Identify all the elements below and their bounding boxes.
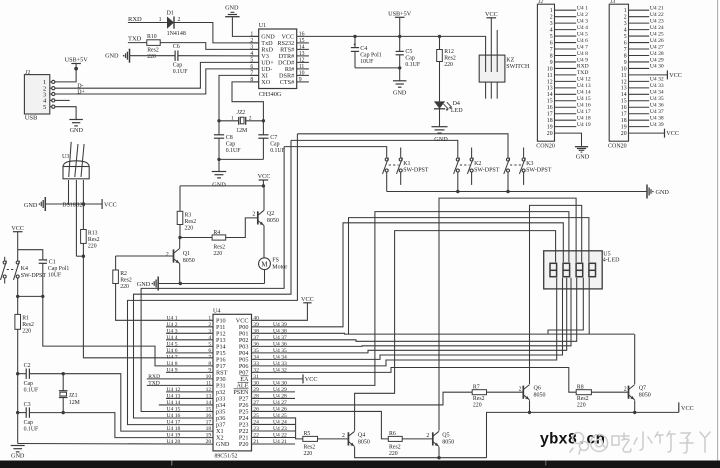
svg-text:14: 14 <box>299 44 305 50</box>
wire P02 row to U5 bottom (band 341.3) <box>252 278 577 342</box>
svg-text:Res2: Res2 <box>444 55 456 61</box>
J1 pin 3 <box>50 93 52 95</box>
svg-text:R3: R3 <box>185 213 192 219</box>
wire P25 row to R6 <box>252 411 389 438</box>
svg-text:16: 16 <box>621 105 627 111</box>
svg-text:2: 2 <box>250 38 253 44</box>
svg-text:14: 14 <box>621 92 627 98</box>
svg-text:U4 15: U4 15 <box>167 407 181 413</box>
transistor Q6 8050 <box>522 386 524 399</box>
capacitor C4 10UF polarized <box>353 35 356 38</box>
svg-text:11: 11 <box>547 73 553 79</box>
svg-text:U4 24: U4 24 <box>650 25 664 31</box>
ground below crystal <box>218 159 220 171</box>
svg-text:6: 6 <box>624 40 627 46</box>
svg-text:220: 220 <box>147 54 156 60</box>
svg-text:U4 12: U4 12 <box>577 77 591 83</box>
svg-text:U4 9: U4 9 <box>167 368 178 374</box>
svg-text:6: 6 <box>550 40 553 46</box>
svg-text:7: 7 <box>208 355 211 361</box>
svg-text:RXD: RXD <box>148 374 160 380</box>
resistor R7 220 <box>472 390 486 395</box>
svg-text:1: 1 <box>250 31 253 37</box>
svg-text:R5: R5 <box>304 431 311 437</box>
bottom taskbar <box>0 461 720 468</box>
svg-text:GND: GND <box>212 182 226 189</box>
svg-text:K1: K1 <box>403 161 410 167</box>
capacitor C6 0.1UF <box>174 51 176 61</box>
wire R7 to Q6 base <box>487 391 524 393</box>
svg-text:VCC: VCC <box>301 296 314 303</box>
node C3 left junction <box>16 411 19 414</box>
svg-text:U4 7: U4 7 <box>167 355 178 361</box>
wire C3 row to U4 X2 <box>63 413 213 438</box>
svg-text:15: 15 <box>206 407 212 413</box>
svg-text:U4 38: U4 38 <box>650 115 664 121</box>
svg-text:U4 17: U4 17 <box>577 109 591 115</box>
wire U4 pin 24 stub <box>252 423 296 425</box>
svg-text:GND: GND <box>11 453 25 460</box>
wire U5 bottom pin to band (x589.2) <box>588 278 590 334</box>
svg-text:10UF: 10UF <box>48 273 62 279</box>
svg-text:C5: C5 <box>405 49 412 55</box>
svg-text:17: 17 <box>206 420 212 426</box>
wire crystal rail <box>219 120 239 122</box>
wire emitter rail up to Q6/Q7 rail <box>487 412 679 457</box>
wire motor to GND rail <box>264 270 266 284</box>
svg-text:U4: U4 <box>213 308 220 314</box>
svg-text:USB: USB <box>25 115 38 122</box>
capacitor C7 0.1UF <box>262 121 264 135</box>
svg-text:VCC: VCC <box>258 173 271 180</box>
svg-text:RXD: RXD <box>577 64 589 70</box>
svg-text:9: 9 <box>624 60 627 66</box>
wire U4 pin 6 stub / net label U4 6 <box>166 352 213 354</box>
svg-text:8050: 8050 <box>358 439 370 445</box>
wire Q2 emitter to motor <box>263 226 265 258</box>
svg-text:0.1UF: 0.1UF <box>24 427 39 433</box>
svg-text:U5: U5 <box>603 251 610 257</box>
node reset rail left <box>16 295 19 298</box>
svg-text:U4 16: U4 16 <box>577 103 591 109</box>
wire USB+5V to J1 pin1 <box>55 64 76 82</box>
svg-text:Res2: Res2 <box>389 444 401 450</box>
resistor R6 220 <box>388 436 402 441</box>
svg-text:SW-DPST: SW-DPST <box>474 168 500 174</box>
svg-text:U4 5: U4 5 <box>577 31 588 37</box>
svg-text:U4 18: U4 18 <box>577 115 591 121</box>
svg-text:K2: K2 <box>474 161 481 167</box>
svg-text:SW-DPST: SW-DPST <box>403 168 429 174</box>
svg-text:220: 220 <box>304 451 313 457</box>
svg-text:J3: J3 <box>610 0 615 5</box>
transistor Q5 8050 <box>432 432 434 445</box>
svg-text:GND: GND <box>70 127 84 134</box>
svg-text:13: 13 <box>621 86 627 92</box>
svg-text:J2: J2 <box>538 0 543 5</box>
wire R6 to Q5 base <box>402 438 433 440</box>
ground below C5 <box>399 68 401 81</box>
wire U1 XI to crystal <box>219 75 259 120</box>
switch K2 SW-DPST <box>456 158 459 161</box>
node reset rail right <box>41 295 44 298</box>
wire J2 pin20 to ground <box>555 133 582 146</box>
svg-text:GND: GND <box>24 202 38 209</box>
wire RXD to D1 anode <box>128 22 167 24</box>
svg-text:C4: C4 <box>360 46 367 52</box>
svg-text:15: 15 <box>547 99 553 105</box>
svg-text:8050: 8050 <box>267 218 279 224</box>
J1 pin 5 <box>50 106 52 108</box>
svg-text:18: 18 <box>621 118 627 124</box>
svg-text:Cap: Cap <box>24 381 33 387</box>
svg-text:GND: GND <box>393 90 407 97</box>
svg-text:K4: K4 <box>21 266 28 272</box>
svg-text:Cap: Cap <box>270 142 279 148</box>
wire C6 to U1 V3 <box>178 55 259 57</box>
svg-text:Res2: Res2 <box>147 48 159 54</box>
svg-text:U4 19: U4 19 <box>577 122 591 128</box>
svg-text:89C51/52: 89C51/52 <box>215 454 238 460</box>
node Q1 collector junction <box>178 236 181 239</box>
node C5 junctions <box>398 35 401 38</box>
power VCC (emitter rail) <box>678 402 680 412</box>
wire P00 row to U5 (riser x343) <box>252 223 564 327</box>
switch KZ (slide switch) <box>479 55 505 82</box>
svg-text:Q4: Q4 <box>358 432 365 438</box>
svg-text:1: 1 <box>159 17 162 23</box>
svg-text:U4 8: U4 8 <box>167 361 178 367</box>
svg-text:C2: C2 <box>24 363 31 369</box>
svg-text:18: 18 <box>547 118 553 124</box>
U1 pin 8 XO <box>250 81 259 83</box>
svg-text:U4 21: U4 21 <box>650 6 664 12</box>
wire C4-C5 ground link <box>355 67 400 69</box>
LED D4 <box>434 101 445 108</box>
wire U4 pin40 VCC <box>252 303 308 321</box>
svg-text:R12: R12 <box>444 49 454 55</box>
wire Q1 collector to R3 node <box>179 238 181 249</box>
wire U5 bottom pin to band row 330 <box>548 278 583 334</box>
J1 pin 4 <box>50 99 52 101</box>
resistor R3 220 <box>179 186 181 211</box>
svg-text:Q5: Q5 <box>442 432 449 438</box>
svg-text:U4 26: U4 26 <box>650 38 664 44</box>
svg-text:U4 4: U4 4 <box>577 25 588 31</box>
svg-text:13: 13 <box>547 86 553 92</box>
resistor R13 220 <box>82 204 84 230</box>
U1 pin 11 RI# <box>297 68 309 70</box>
svg-text:U4 22: U4 22 <box>650 12 664 18</box>
svg-text:10: 10 <box>299 70 305 76</box>
wire R10 to U1 RxD <box>160 43 259 50</box>
wire J3 pin11 to VCC <box>629 74 668 76</box>
U1 pin 14 RTS# <box>297 48 309 50</box>
node VCC rail junction <box>262 184 265 187</box>
U3 pins down <box>68 180 70 204</box>
U1 pin 5 UD+ <box>250 61 259 63</box>
svg-text:K3: K3 <box>526 161 533 167</box>
node JZ1 bottom junction <box>62 411 65 414</box>
svg-text:R7: R7 <box>473 384 480 390</box>
svg-text:USB+5V: USB+5V <box>388 10 412 17</box>
svg-text:19: 19 <box>621 125 627 131</box>
svg-text:5: 5 <box>550 34 553 40</box>
svg-text:10UF: 10UF <box>360 59 374 65</box>
U1 pin 4 V3 <box>250 55 259 57</box>
svg-text:12: 12 <box>621 79 627 85</box>
svg-text:R6: R6 <box>389 431 396 437</box>
svg-text:8050: 8050 <box>534 393 546 399</box>
ground (sideways) right of keys <box>646 185 648 199</box>
svg-text:U4 33: U4 33 <box>650 83 664 89</box>
svg-text:GND: GND <box>137 281 151 288</box>
node Q1 emitter gnd junction <box>179 282 182 285</box>
svg-text:P20: P20 <box>239 441 249 448</box>
svg-text:VCC: VCC <box>669 72 682 79</box>
svg-text:U4 13: U4 13 <box>577 83 591 89</box>
power VCC and rail to R3/Q2 <box>180 185 263 187</box>
svg-text:1: 1 <box>208 316 211 322</box>
svg-text:Res2: Res2 <box>88 237 100 243</box>
wire P03 row to U5 bottom (band 345.8) <box>252 278 572 347</box>
svg-text:R10: R10 <box>147 34 157 40</box>
wire VCC down to K4/C1 <box>17 232 19 261</box>
switch K3 SW-DPST <box>507 158 510 161</box>
node C2 left junction <box>16 372 19 375</box>
svg-text:8: 8 <box>550 53 553 59</box>
transistor Q7 8050 <box>628 386 630 399</box>
svg-text:CON20: CON20 <box>608 144 627 150</box>
wire P05 row to U5 bottom (band 355) <box>252 278 563 360</box>
U1 pin 1 GND <box>250 35 259 37</box>
svg-text:7: 7 <box>550 47 553 53</box>
svg-text:U4 5: U4 5 <box>167 342 178 348</box>
svg-text:220: 220 <box>185 226 194 232</box>
watermark ghost logo <box>570 431 710 454</box>
svg-text:U4 6: U4 6 <box>577 38 588 44</box>
svg-text:U4 12: U4 12 <box>167 387 181 393</box>
svg-text:U1: U1 <box>259 23 266 29</box>
svg-text:Motor: Motor <box>272 265 287 271</box>
wire J1 pin4 stub <box>55 99 70 101</box>
wire GND to U1 pin1 <box>232 17 258 37</box>
wire P04 row to U5 bottom (band 350.3) <box>252 278 567 353</box>
wire J1 pin3 D+ to U1 UD- <box>55 69 259 94</box>
svg-text:VCC: VCC <box>485 11 498 18</box>
wire K3 column down to U4 p37 <box>128 134 298 425</box>
svg-text:15: 15 <box>621 99 627 105</box>
svg-text:U4 1: U4 1 <box>167 316 178 322</box>
svg-text:U4 29: U4 29 <box>650 57 664 63</box>
wire TXD to R10 <box>128 42 147 44</box>
svg-text:JZ1: JZ1 <box>69 393 78 399</box>
svg-text:Cap: Cap <box>173 63 182 69</box>
svg-text:3: 3 <box>250 44 253 50</box>
svg-text:U4 15: U4 15 <box>577 96 591 102</box>
wire U4 pin 14 stub / net label U4 14 <box>159 404 213 406</box>
switch K4 SW-DPST <box>16 261 19 264</box>
ground below J1 <box>69 119 83 121</box>
wire J1 pin5 to ground <box>55 107 76 120</box>
wire ALE row riser to U5 top <box>252 212 569 386</box>
svg-text:220: 220 <box>577 403 586 409</box>
svg-text:4: 4 <box>250 51 253 57</box>
svg-text:U4 16: U4 16 <box>167 413 181 419</box>
IC U1 CH340G <box>259 29 297 89</box>
wire U4 pin 13 stub / net label U4 13 <box>166 397 213 399</box>
svg-text:0.1UF: 0.1UF <box>226 148 241 154</box>
wire reset bottom rail <box>18 295 43 297</box>
wire Q6 collector riser to U5 top <box>530 205 582 384</box>
power VCC right of U3 <box>101 199 103 209</box>
resistor R2 220 <box>115 256 117 270</box>
svg-text:C1: C1 <box>49 260 56 266</box>
svg-text:220: 220 <box>120 284 129 290</box>
ground bottom-left <box>11 445 25 447</box>
wire P24 row to R5 <box>252 418 303 439</box>
svg-text:8050: 8050 <box>639 393 651 399</box>
wire GND rail to motor <box>158 283 264 285</box>
svg-text:17: 17 <box>621 112 627 118</box>
svg-text:U4 35: U4 35 <box>650 96 664 102</box>
resistor R4 220 <box>180 237 212 239</box>
U1 pin 3 RxD <box>250 48 259 50</box>
svg-text:U4 3: U4 3 <box>577 18 588 24</box>
resistor R10 220 <box>147 40 160 46</box>
wire J1 pin2 D- to U1 UD+ <box>55 62 259 88</box>
svg-text:12M: 12M <box>236 128 247 134</box>
svg-text:D+: D+ <box>77 89 85 95</box>
motor FS <box>259 258 271 270</box>
svg-text:U4 7: U4 7 <box>577 44 588 50</box>
svg-text:GND: GND <box>105 53 119 60</box>
U1 pin 12 DCD# <box>297 61 309 63</box>
svg-text:R4: R4 <box>213 230 220 236</box>
svg-text:Res2: Res2 <box>304 444 316 450</box>
svg-text:2: 2 <box>519 387 522 393</box>
svg-text:+: + <box>353 41 357 48</box>
svg-text:Cap: Cap <box>405 56 414 62</box>
svg-text:Cap: Cap <box>226 142 235 148</box>
node Q5 emitter junction <box>437 456 440 459</box>
svg-text:VCC: VCC <box>11 225 24 232</box>
svg-text:C8: C8 <box>226 135 233 141</box>
svg-text:4: 4 <box>550 28 553 34</box>
connector J2 CON20 <box>537 4 554 141</box>
svg-text:Cap Pol1: Cap Pol1 <box>48 266 70 272</box>
crystal JZ2 12M <box>238 117 240 125</box>
svg-text:0.1UF: 0.1UF <box>24 388 39 394</box>
svg-text:Q2: Q2 <box>267 211 274 217</box>
wire Q1 base from R2 <box>116 255 174 257</box>
svg-text:1: 1 <box>550 8 553 14</box>
diode D1 1N4148 <box>167 17 174 29</box>
svg-text:9: 9 <box>550 60 553 66</box>
svg-text:220: 220 <box>22 329 31 335</box>
svg-text:0.1UF: 0.1UF <box>405 62 420 68</box>
node U3 vcc pin junction <box>82 202 85 205</box>
svg-text:U4 9: U4 9 <box>577 57 588 63</box>
sensor U3 DS18B20 <box>63 167 89 179</box>
svg-text:GND: GND <box>225 4 239 11</box>
svg-text:GND: GND <box>576 153 590 160</box>
svg-text:TXD: TXD <box>148 381 160 387</box>
svg-text:GND: GND <box>434 136 448 143</box>
svg-text:Res2: Res2 <box>473 396 485 402</box>
wire U4 pin 11 TXD <box>147 384 213 386</box>
resistor R8 220 <box>576 390 591 395</box>
svg-text:XO: XO <box>261 79 270 86</box>
wire crystal bottom rail <box>219 158 263 160</box>
svg-text:3: 3 <box>624 21 627 27</box>
U1 pin 10 DSR# <box>297 74 309 76</box>
wire C2 row to U4 X1 <box>63 374 213 431</box>
wire P06 row to U5 bottom (band 360) <box>252 278 557 366</box>
wire U4 pin 21 stub <box>252 443 296 445</box>
svg-text:19: 19 <box>547 125 553 131</box>
wire K3 top rail <box>297 134 508 158</box>
node crystal gnd junction <box>217 158 220 161</box>
wire U4 pin 2 stub / net label U4 2 <box>166 326 213 328</box>
wire P07 row to band and R8 <box>252 368 577 393</box>
wire K2 column down to U4 p36 <box>134 140 292 418</box>
wire U4 pin 4 stub / net label U4 4 <box>166 339 213 341</box>
wire U4 pin 5 stub / net label U4 5 <box>166 345 213 347</box>
svg-text:13: 13 <box>299 51 305 57</box>
svg-text:10: 10 <box>621 66 627 72</box>
U1 pin 6 UD- <box>250 68 259 70</box>
svg-text:U4 27: U4 27 <box>650 44 664 50</box>
wire U4 pin 3 stub / net label U4 3 <box>166 332 213 334</box>
svg-text:220: 220 <box>389 451 398 457</box>
svg-text:U4 2: U4 2 <box>167 322 178 328</box>
svg-text:U4 25: U4 25 <box>650 31 664 37</box>
svg-text:0.1UF: 0.1UF <box>270 148 285 154</box>
svg-text:CH340G: CH340G <box>259 91 282 98</box>
wire Q7 collector riser to band <box>634 334 636 384</box>
svg-text:KZ: KZ <box>506 58 514 64</box>
svg-text:Res2: Res2 <box>577 396 589 402</box>
wire U4 pin 29 stub <box>252 391 296 393</box>
capacitor C8 0.1UF <box>218 121 220 135</box>
svg-text:6: 6 <box>250 64 253 70</box>
wire U4 GND row (pin 20) <box>18 443 213 446</box>
svg-text:R2: R2 <box>120 271 127 277</box>
wire band row P01/digit to Q7 collector <box>349 333 635 335</box>
connector J3 CON20 <box>609 4 628 141</box>
svg-text:Res2: Res2 <box>22 322 34 328</box>
J1 pin 2 <box>50 87 52 89</box>
node K3 rail junction <box>506 190 509 193</box>
wire U3 data link <box>76 255 83 257</box>
switch KZ pin stub <box>496 30 498 72</box>
svg-text:5: 5 <box>250 57 253 63</box>
svg-text:Q1: Q1 <box>183 251 190 257</box>
svg-text:U4 4: U4 4 <box>167 335 178 341</box>
node Q7 emitter junction <box>633 411 636 414</box>
svg-text:220: 220 <box>88 244 97 250</box>
svg-text:Q6: Q6 <box>534 386 541 392</box>
svg-text:Res2: Res2 <box>185 219 197 225</box>
connector J1 USB <box>24 75 49 114</box>
IC U4 89C51/52 <box>213 314 252 451</box>
svg-text:5: 5 <box>624 34 627 40</box>
wire GND to C6 <box>130 55 176 57</box>
svg-text:Res2: Res2 <box>213 245 225 251</box>
svg-text:16: 16 <box>547 105 553 111</box>
switch K1 SW-DPST <box>385 158 388 161</box>
